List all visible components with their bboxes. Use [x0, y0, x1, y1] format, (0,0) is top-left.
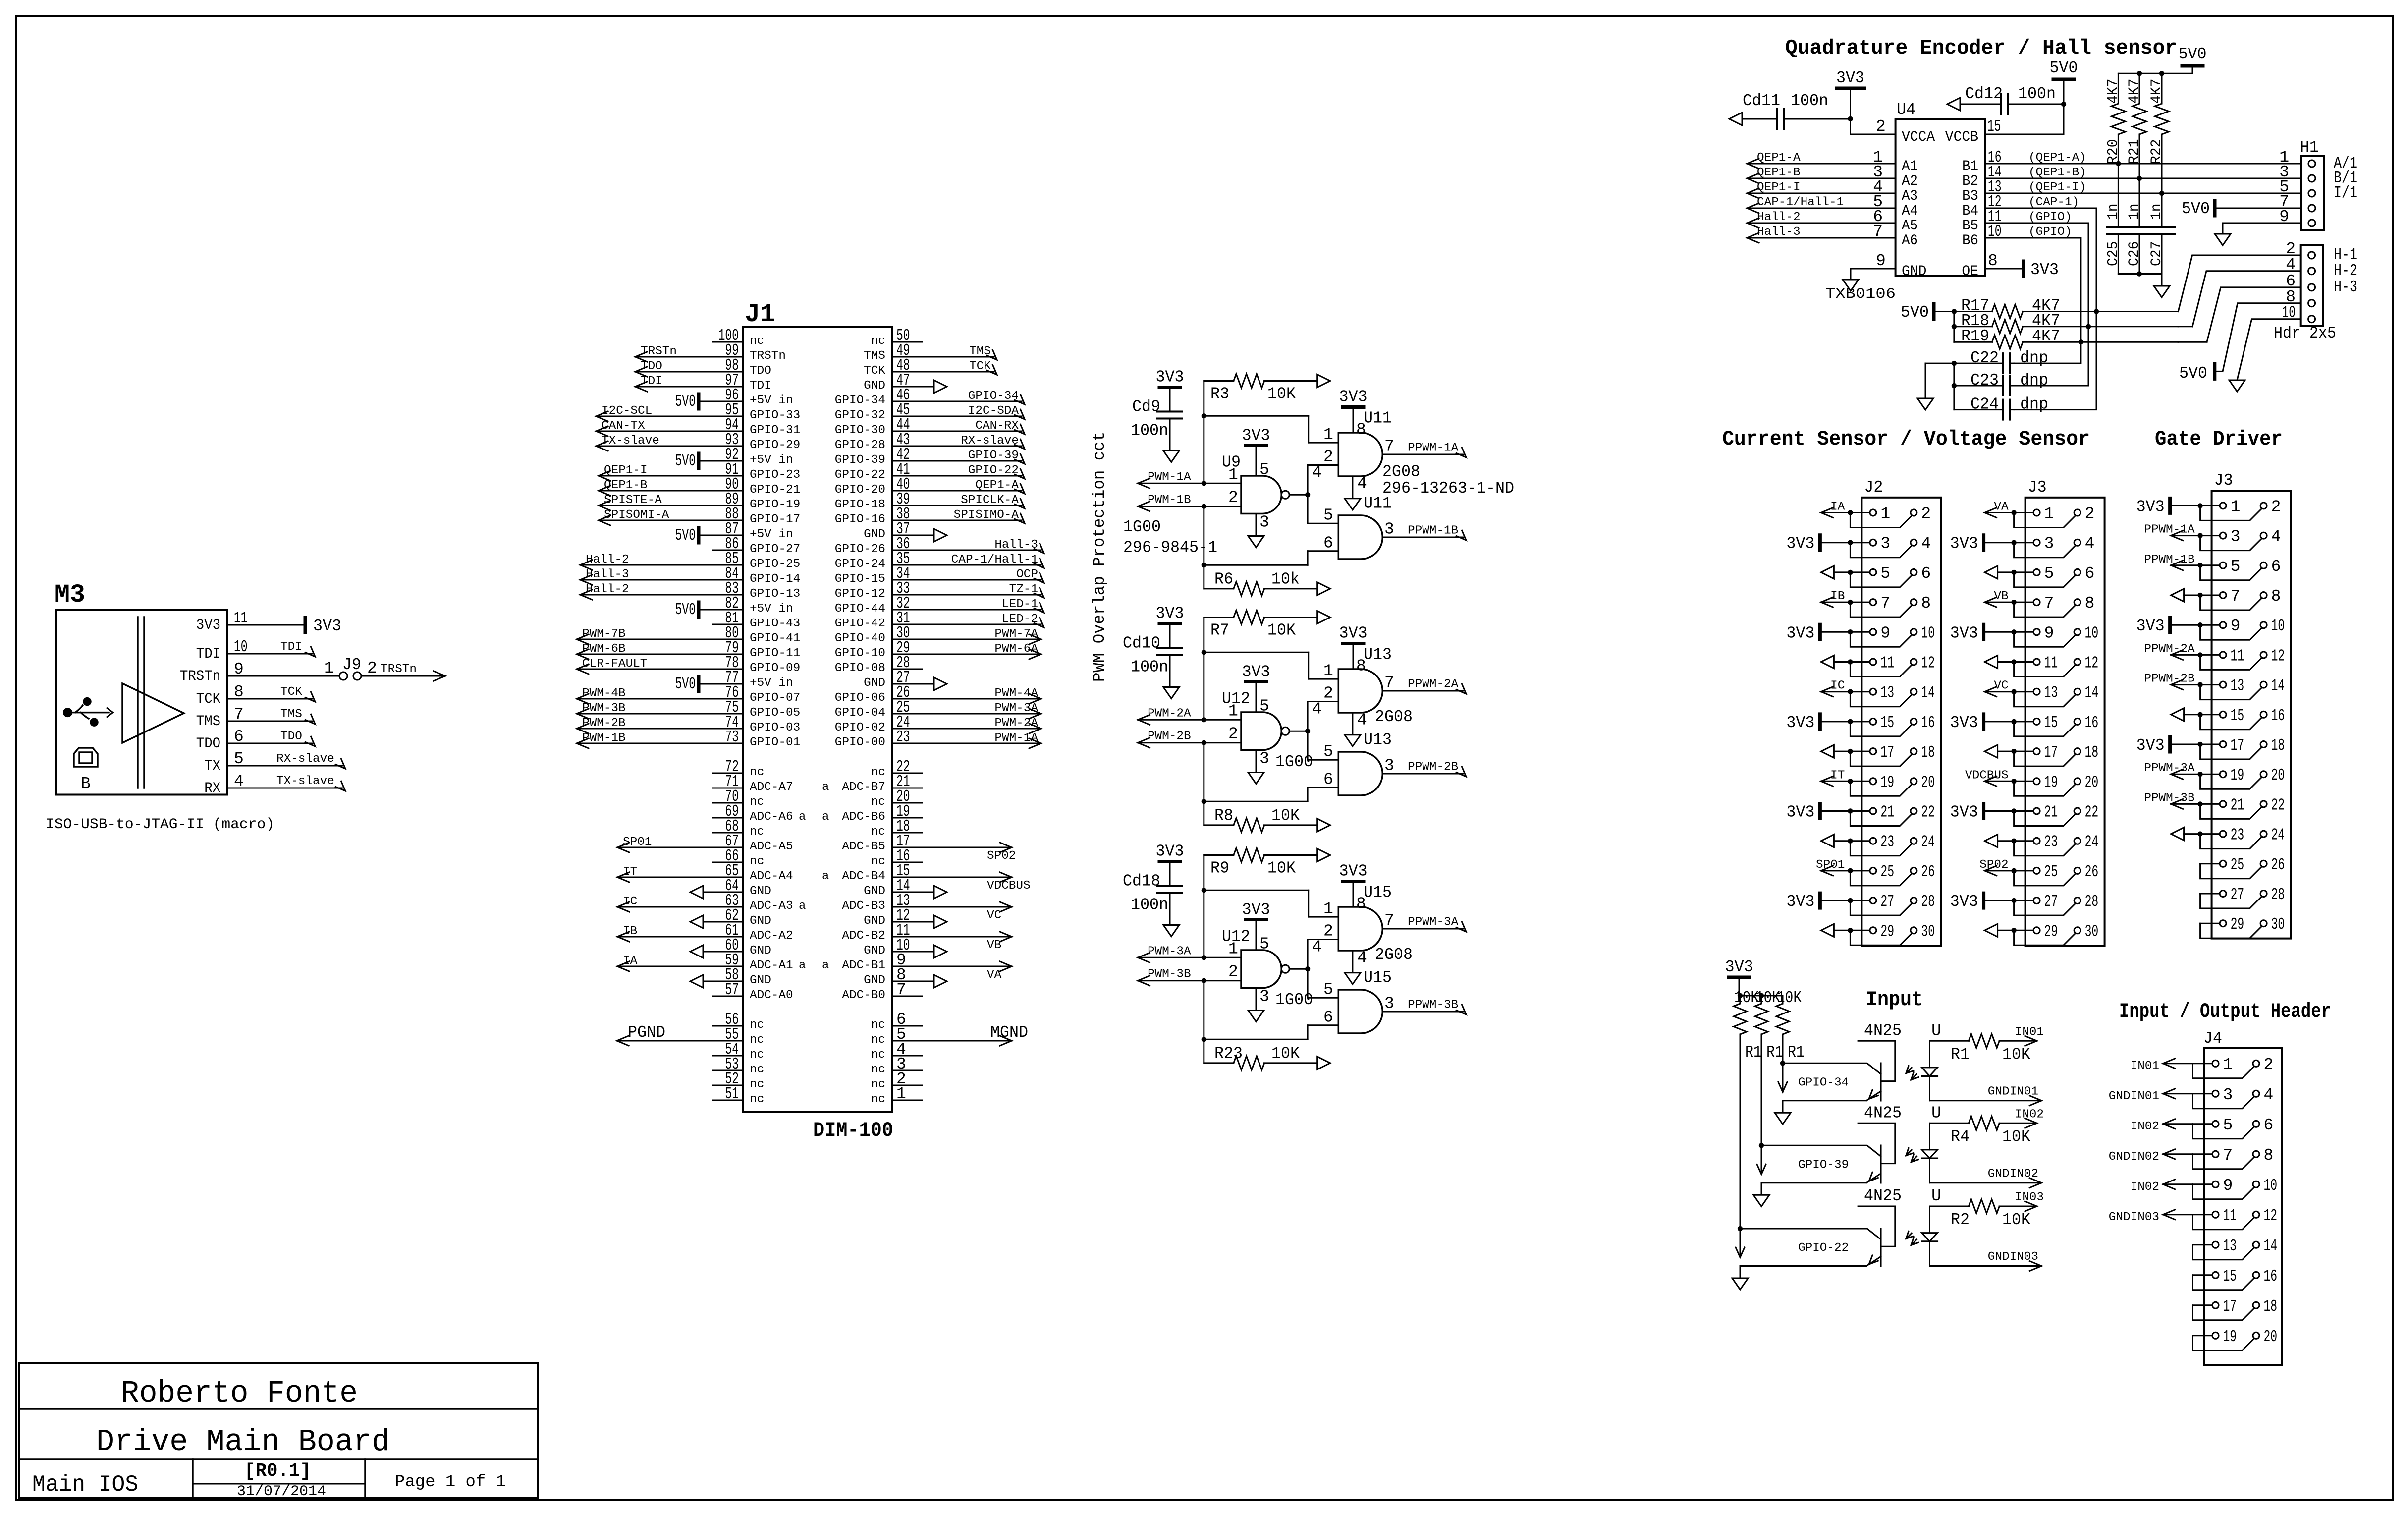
svg-text:ADC-A5: ADC-A5	[750, 840, 793, 853]
svg-text:(QEP1-A): (QEP1-A)	[2028, 151, 2086, 165]
svg-text:ADC-B6: ADC-B6	[842, 810, 885, 824]
U4 pin 4 A3 / net QEP1-I	[1747, 178, 1918, 205]
Hdr2x5 pin 6 H-3	[2286, 272, 2357, 296]
J1 pin 91 GPIO-23 / net QEP1-I	[599, 460, 800, 482]
svg-text:GPIO-26: GPIO-26	[835, 543, 885, 556]
svg-text:7: 7	[1384, 674, 1394, 692]
J1 pin 93 GPIO-29 / net TX-slave	[596, 431, 800, 452]
J1 pin 81 GPIO-43	[713, 609, 800, 630]
svg-text:Gate Driver: Gate Driver	[2155, 427, 2283, 451]
capacitor C24 dnp	[1954, 395, 2048, 420]
svg-text:PWM-1A: PWM-1A	[994, 731, 1038, 745]
svg-text:26: 26	[1921, 863, 1935, 881]
svg-text:TMS: TMS	[196, 713, 220, 730]
wire R18 extension	[2178, 326, 2192, 327]
J1 pin 89 GPIO-19 / net SPISTE-A	[599, 490, 800, 511]
svg-text:M3: M3	[55, 580, 85, 610]
M3 pin 7 TMS wire	[227, 708, 315, 724]
J1 pin 43 GPIO-28 / net RX-slave	[835, 431, 1025, 452]
J1 pin 85 GPIO-25 / net Hall-2	[580, 550, 800, 571]
svg-text:GPIO-03: GPIO-03	[750, 721, 800, 734]
J3 pins 11/12 net PPWM-2A	[1725, 642, 2332, 1365]
wire R9 bus to AND pin 1	[1202, 855, 1339, 960]
svg-text:R23: R23	[1214, 1045, 1243, 1063]
svg-text:nc: nc	[871, 1093, 885, 1106]
ground for H1 pin 9	[2215, 234, 2231, 245]
resistor R19 4K7	[1954, 327, 2178, 349]
svg-text:+5V in: +5V in	[750, 676, 793, 690]
J1 pin 25 GPIO-04 / net PWM-3A	[835, 698, 1041, 720]
svg-text:29: 29	[2231, 915, 2244, 934]
svg-text:GPIO-07: GPIO-07	[750, 691, 800, 705]
U4 pin 13 B3 / net (QEP1-I)	[1962, 178, 2086, 205]
wire bus to AND pin 6 and R6	[1202, 504, 1339, 589]
svg-text:19: 19	[2044, 773, 2058, 791]
J1 pin 39 GPIO-18 / net SPICLK-A	[835, 490, 1025, 511]
wire emitter to ground	[1740, 1266, 1866, 1279]
svg-text:3V3: 3V3	[313, 617, 341, 635]
J1 pin 100 nc	[713, 327, 764, 348]
svg-text:17: 17	[2044, 743, 2058, 762]
svg-text:8: 8	[2271, 587, 2281, 606]
J1 pin 62 GND	[690, 906, 771, 928]
J3 pins 29/30	[1725, 915, 2332, 1365]
svg-text:10K: 10K	[1267, 385, 1296, 403]
svg-text:QEP1-A: QEP1-A	[1757, 151, 1801, 165]
svg-text:VDCBUS: VDCBUS	[1965, 769, 2009, 782]
svg-text:PPWM-2B: PPWM-2B	[1408, 761, 1458, 774]
wire R17 row to Hdr pin 2	[2178, 255, 2301, 312]
svg-text:TXB0106: TXB0106	[1825, 286, 1896, 303]
svg-text:VC: VC	[1994, 679, 2008, 693]
M3 pin 8 TCK	[196, 683, 244, 708]
svg-text:26: 26	[2271, 856, 2285, 874]
svg-text:GND: GND	[750, 885, 771, 898]
J3 pins 21/22 net PPWM-3B	[1725, 791, 2332, 1365]
svg-text:5V0: 5V0	[2182, 200, 2210, 218]
svg-text:3V3: 3V3	[1950, 535, 1978, 553]
svg-text:4: 4	[1357, 949, 1367, 967]
J1 pin 83 GPIO-13 / net Hall-2	[580, 579, 800, 601]
svg-text:8: 8	[2264, 1146, 2274, 1165]
svg-text:Hall-3: Hall-3	[994, 538, 1038, 552]
svg-text:7: 7	[1384, 438, 1394, 456]
svg-text:GPIO-04: GPIO-04	[835, 706, 885, 720]
svg-text:19: 19	[1880, 773, 1894, 791]
J3 pins 23/24	[1725, 826, 2332, 1365]
svg-text:GPIO-40: GPIO-40	[835, 632, 885, 645]
resistor R17 4K7	[1954, 297, 2178, 319]
H1 pin 1 A/1	[2279, 148, 2357, 172]
svg-text:18: 18	[2271, 736, 2285, 755]
M3 pin 4 TX-slave wire	[227, 775, 345, 791]
J1 pin 30 GPIO-40 / net PWM-7A	[835, 624, 1041, 645]
svg-text:2: 2	[1323, 684, 1333, 703]
svg-text:SP02: SP02	[987, 849, 1016, 863]
svg-text:nc: nc	[871, 1063, 885, 1076]
svg-text:RX: RX	[204, 780, 220, 797]
svg-text:C27: C27	[2148, 241, 2165, 266]
svg-text:PPWM-3B: PPWM-3B	[1408, 999, 1458, 1012]
U4 pin 3 A2 / net QEP1-B	[1747, 163, 1918, 190]
Hdr2x5 pin 10	[2282, 304, 2315, 323]
J2 pins 15/16	[1725, 471, 2332, 1365]
J1 pin 70 nc	[713, 788, 764, 809]
svg-text:nc: nc	[750, 1018, 764, 1032]
svg-text:PPWM-2A: PPWM-2A	[1408, 678, 1459, 691]
J2 pins 5/6	[1725, 471, 2332, 1365]
J1 pin 54 nc	[713, 1040, 764, 1062]
svg-text:GND: GND	[864, 885, 885, 898]
svg-text:SPICLK-A: SPICLK-A	[961, 494, 1019, 507]
svg-text:1: 1	[1323, 426, 1333, 444]
svg-text:3V3: 3V3	[1786, 893, 1814, 911]
svg-text:GPIO-32: GPIO-32	[835, 409, 885, 422]
svg-text:ADC-B5: ADC-B5	[842, 840, 885, 853]
svg-text:9: 9	[2223, 1177, 2233, 1195]
svg-text:CAP-1/Hall-1: CAP-1/Hall-1	[951, 553, 1038, 566]
svg-text:TZ-1: TZ-1	[1009, 583, 1038, 596]
svg-text:10K: 10K	[2002, 1127, 2030, 1146]
U4 pin 8 OE to 3V3	[1962, 252, 2059, 280]
svg-text:J3: J3	[2028, 478, 2047, 497]
svg-text:6: 6	[1921, 564, 1931, 583]
svg-text:A3: A3	[1902, 188, 1918, 205]
svg-text:3: 3	[1384, 995, 1394, 1013]
svg-text:TDO: TDO	[750, 364, 771, 378]
svg-text:3V3: 3V3	[1156, 368, 1184, 387]
J1 pin 26 GPIO-06 / net PWM-4A	[835, 683, 1041, 705]
svg-text:TDI: TDI	[641, 375, 662, 388]
power 5V0 to U4 VCCB pin 15	[1945, 59, 2078, 146]
J1 pin 12 GND	[864, 906, 947, 928]
svg-text:GNDIN02: GNDIN02	[2109, 1150, 2159, 1164]
U4 pin 6 A5 / net Hall-2	[1747, 208, 1918, 234]
svg-text:6: 6	[2271, 558, 2281, 576]
svg-text:5: 5	[1880, 564, 1890, 583]
power 5V0 to R17-R19	[1901, 303, 1954, 322]
ground left of C22	[1917, 398, 1933, 410]
wire emitter to ground	[1761, 1183, 1866, 1195]
J1 pin 44 GPIO-30 / net CAN-RX	[835, 416, 1025, 437]
svg-text:U12: U12	[1222, 928, 1250, 946]
J1 pin 82 +5V in	[675, 594, 793, 619]
wire PWM-2A input	[1138, 702, 1242, 725]
svg-text:(GPIO): (GPIO)	[2028, 225, 2072, 239]
resistor R6 10k	[1204, 570, 1330, 596]
svg-text:5: 5	[2223, 1116, 2233, 1134]
svg-text:H-3: H-3	[2334, 278, 2357, 296]
svg-text:17: 17	[2231, 736, 2244, 755]
svg-text:5V0: 5V0	[675, 675, 696, 693]
svg-text:ADC-B1: ADC-B1	[842, 959, 885, 972]
capacitor C23 dnp	[1954, 371, 2048, 395]
J1 pin 74 GPIO-03 / net PWM-2B	[577, 713, 800, 734]
svg-text:3V3: 3V3	[1950, 624, 1978, 642]
J3 pins 19/20 net PPWM-3A	[1725, 762, 2332, 1365]
connector J3 body	[2212, 491, 2291, 939]
svg-text:U11: U11	[1364, 409, 1392, 428]
svg-text:nc: nc	[750, 795, 764, 809]
U12 pin 3 to ground	[1256, 750, 1269, 773]
Hdr2x5 pin 2 H-1	[2286, 240, 2357, 264]
svg-text:nc: nc	[871, 1018, 885, 1032]
svg-text:Quadrature Encoder / Hall sens: Quadrature Encoder / Hall sensor	[1785, 36, 2177, 60]
svg-text:5V0: 5V0	[2179, 45, 2207, 63]
svg-text:I2C-SDA: I2C-SDA	[968, 404, 1019, 418]
svg-text:16: 16	[2264, 1267, 2278, 1286]
svg-text:GNDIN01: GNDIN01	[2109, 1090, 2159, 1103]
svg-text:GND: GND	[864, 974, 885, 987]
svg-text:3V3: 3V3	[2136, 617, 2165, 635]
J1 pin 31 GPIO-42 / net LED-2	[835, 609, 1044, 630]
ground below Cd9	[1163, 451, 1179, 462]
svg-text:1: 1	[1323, 662, 1333, 680]
J1 pin 84 GPIO-14 / net Hall-3	[580, 564, 800, 586]
svg-text:QEP1-B: QEP1-B	[1757, 166, 1801, 179]
J1 pin 51 nc	[713, 1085, 764, 1106]
J1 pin 96 +5V in	[675, 386, 793, 411]
svg-text:R4: R4	[1951, 1127, 1970, 1146]
svg-text:2: 2	[2264, 1056, 2274, 1074]
U4 pin 1 A1 / net QEP1-A	[1747, 148, 1918, 175]
J1 pin 34 GPIO-15 / net OCP	[835, 564, 1044, 586]
wire R3 bus to AND pin 1	[1202, 381, 1339, 486]
svg-text:IC: IC	[1830, 679, 1845, 693]
svg-text:R6: R6	[1214, 570, 1233, 589]
svg-text:Cd10: Cd10	[1123, 634, 1160, 653]
light arrows	[1906, 1148, 1918, 1162]
svg-text:2G08: 2G08	[1375, 946, 1413, 964]
wire GPIO row B6 turns down	[1985, 238, 2081, 363]
wire MGND on J1 pin 5 row	[922, 1023, 1028, 1046]
svg-text:19: 19	[2231, 766, 2244, 785]
svg-text:Current Sensor / Voltage Senso: Current Sensor / Voltage Sensor	[1722, 427, 2090, 451]
svg-text:12: 12	[2264, 1207, 2278, 1225]
wire TRSTn from J9 pin 2	[361, 663, 445, 681]
M3 pin 7 TMS	[196, 705, 244, 730]
svg-text:Roberto Fonte: Roberto Fonte	[121, 1376, 358, 1411]
svg-text:GPIO-28: GPIO-28	[835, 439, 885, 452]
svg-text:nc: nc	[871, 795, 885, 809]
wire R20 column down to C25	[2118, 164, 2119, 227]
J1 pin 29 GPIO-10 / net PWM-6A	[835, 639, 1041, 660]
svg-text:12: 12	[2085, 654, 2099, 673]
svg-text:TDI: TDI	[280, 640, 302, 654]
M3 pin 11 wire to 3V3	[227, 617, 341, 635]
svg-text:9: 9	[2231, 617, 2241, 635]
svg-text:A6: A6	[1902, 232, 1918, 249]
svg-text:4: 4	[1312, 938, 1322, 956]
H1 pin 7	[2279, 193, 2315, 212]
svg-text:17: 17	[2223, 1297, 2237, 1316]
svg-text:U15: U15	[1364, 884, 1392, 902]
U15 pin 8 to 3V3	[1339, 862, 1368, 913]
svg-text:PWM-3A: PWM-3A	[1148, 945, 1191, 958]
AND gate U15 upper (PPWM-3A) 2G08	[1323, 884, 1392, 951]
svg-text:TRSTn: TRSTn	[641, 345, 677, 358]
J4 pins 1/2 net IN01	[2131, 1056, 2274, 1078]
svg-text:PWM-2B: PWM-2B	[582, 717, 626, 730]
svg-text:ISO-USB-to-JTAG-II (macro): ISO-USB-to-JTAG-II (macro)	[46, 816, 274, 833]
svg-text:TDI: TDI	[750, 379, 771, 393]
U15 pin 4 to ground	[1353, 949, 1367, 973]
J1 pin 16 nc	[871, 847, 922, 868]
svg-text:QEP1-I: QEP1-I	[1757, 181, 1801, 194]
svg-text:B3: B3	[1962, 188, 1978, 205]
svg-text:nc: nc	[750, 825, 764, 839]
J1 pin 37 GND	[864, 520, 947, 542]
H1 pin 5 I/1	[2279, 178, 2357, 202]
J1 pin 41 GPIO-22 / net GPIO-22	[835, 460, 1025, 482]
J3 pins 29/30	[1725, 471, 2332, 1365]
svg-text:Hall-2: Hall-2	[1757, 211, 1801, 224]
J1 pin 21 ADC-B7	[842, 773, 922, 794]
svg-text:GPIO-01: GPIO-01	[750, 736, 800, 749]
svg-text:29: 29	[1880, 922, 1894, 941]
svg-text:GPIO-12: GPIO-12	[835, 587, 885, 601]
svg-text:14: 14	[2271, 677, 2285, 695]
svg-text:B: B	[81, 775, 91, 793]
J1 pin 20 nc	[871, 788, 922, 809]
svg-text:3: 3	[1880, 535, 1890, 553]
svg-text:U13: U13	[1364, 646, 1392, 664]
svg-text:7: 7	[2223, 1146, 2233, 1165]
svg-text:GPIO-34: GPIO-34	[835, 394, 885, 407]
svg-text:IB: IB	[623, 925, 637, 938]
svg-text:nc: nc	[750, 1048, 764, 1062]
J1 pin 28 GPIO-08	[835, 654, 922, 675]
wire C22 row to ground	[1925, 361, 1957, 410]
svg-text:VC: VC	[987, 909, 1001, 922]
svg-text:Hdr 2x5: Hdr 2x5	[2274, 324, 2336, 342]
svg-text:nc: nc	[871, 335, 885, 348]
connector Hdr 2x5 body	[2301, 245, 2323, 326]
svg-text:PWM-7B: PWM-7B	[582, 627, 626, 641]
svg-text:dnp: dnp	[2020, 395, 2048, 414]
J1 pin 49 TMS / net TMS	[864, 341, 997, 363]
svg-text:5V0: 5V0	[2179, 364, 2207, 383]
svg-text:ADC-A7: ADC-A7	[750, 781, 793, 794]
svg-text:J4: J4	[2203, 1029, 2222, 1048]
svg-text:CAP-1/Hall-1: CAP-1/Hall-1	[1757, 196, 1844, 209]
J1 pin 45 GPIO-32 / net I2C-SDA	[835, 401, 1025, 422]
M3 pin 6 TDO wire	[227, 730, 315, 746]
svg-text:IN02: IN02	[2015, 1108, 2044, 1121]
svg-text:PPWM-1A: PPWM-1A	[1408, 442, 1459, 455]
svg-text:5: 5	[1259, 697, 1269, 716]
svg-text:LED-2: LED-2	[1002, 613, 1038, 626]
svg-text:PWM-2A: PWM-2A	[1148, 707, 1191, 721]
svg-text:9: 9	[1876, 252, 1886, 270]
title block vertical separator left	[192, 1459, 194, 1498]
U12 pin 5 to 3V3	[1242, 663, 1270, 716]
J3 pins 5/6	[1725, 471, 2332, 1365]
svg-text:16: 16	[2271, 707, 2285, 725]
svg-text:15: 15	[2223, 1267, 2237, 1286]
connector J2 body	[1861, 498, 1941, 946]
wire QEP1-A row B1 to H1 pin 1	[1985, 163, 2301, 165]
J2 pins 17/18	[1725, 471, 2332, 1365]
J2 pins 3/4	[1725, 471, 2332, 1365]
J1 pin 99 TRSTn / net TRSTn	[635, 341, 786, 363]
resistor R1 10K pullup #3	[1776, 989, 1805, 1062]
svg-text:TRSTn: TRSTn	[381, 663, 417, 676]
resistor R21 4K7 pullup	[2126, 73, 2146, 181]
svg-text:GPIO-39: GPIO-39	[968, 449, 1019, 462]
svg-text:3V3: 3V3	[1156, 843, 1184, 861]
J3 pins 15/16	[1725, 707, 2332, 1365]
svg-text:GND: GND	[864, 528, 885, 541]
svg-text:Main IOS: Main IOS	[32, 1472, 138, 1498]
svg-text:IT: IT	[1830, 769, 1845, 782]
svg-text:GPIO-25: GPIO-25	[750, 558, 800, 571]
IC U4 TXB0106 body	[1896, 119, 1985, 276]
J1 pin 32 GPIO-44 / net LED-1	[835, 594, 1044, 616]
J1 pin 71 ADC-A7	[713, 773, 793, 794]
J1 pin 18 nc	[871, 817, 922, 839]
wire emitter to ground	[1783, 1101, 1866, 1113]
svg-text:3: 3	[2044, 535, 2054, 553]
svg-text:R2: R2	[1951, 1211, 1970, 1229]
svg-text:GPIO-15: GPIO-15	[835, 572, 885, 586]
NAND gate U12 1G00	[1222, 928, 1289, 988]
M3 pin 8 TCK wire	[227, 685, 315, 702]
svg-text:20: 20	[2085, 773, 2099, 791]
svg-text:DIM-100: DIM-100	[813, 1119, 893, 1142]
svg-text:SPISIMO-A: SPISIMO-A	[954, 508, 1019, 522]
svg-text:a: a	[822, 870, 829, 883]
svg-text:4: 4	[2271, 528, 2281, 546]
light arrows	[1906, 1066, 1918, 1080]
wire GNDIN03	[1930, 1250, 2042, 1271]
NAND gate U12 1G00	[1222, 690, 1289, 750]
M3 buffer amp triangle	[122, 683, 184, 743]
svg-text:28: 28	[2271, 886, 2285, 904]
svg-text:a: a	[799, 900, 806, 913]
svg-text:ADC-A3: ADC-A3	[750, 900, 793, 913]
svg-text:100n: 100n	[1791, 92, 1828, 110]
svg-text:nc: nc	[871, 825, 885, 839]
svg-text:GPIO-09: GPIO-09	[750, 662, 800, 675]
resistor R2 10K to IN03	[1930, 1191, 2044, 1229]
U4 pin 14 B2 / net (QEP1-B)	[1962, 163, 2086, 190]
svg-text:27: 27	[1880, 893, 1894, 911]
M3 USB-B connector icon	[74, 748, 98, 767]
svg-text:25: 25	[2044, 863, 2058, 881]
svg-text:[R0.1]: [R0.1]	[244, 1461, 311, 1482]
svg-text:10K: 10K	[1267, 621, 1296, 640]
J2 pins 9/10	[1725, 471, 2332, 1365]
J4 pins 7/8 net GNDIN02	[2109, 1146, 2274, 1169]
resistor R1 10K to IN01	[1930, 1025, 2044, 1064]
J3 pins 25/26 net SP02	[1725, 471, 2332, 1365]
svg-text:3V3: 3V3	[1836, 69, 1864, 87]
svg-text:5: 5	[1323, 981, 1333, 999]
svg-text:U15: U15	[1364, 969, 1392, 987]
svg-text:VCCB: VCCB	[1945, 129, 1978, 146]
ground for IN02 emitter	[1753, 1195, 1769, 1206]
svg-text:dnp: dnp	[2020, 349, 2048, 367]
J1 pin 5 nc	[871, 1025, 922, 1047]
J3 pins 5/6 net PPWM-1B	[1725, 553, 2332, 1365]
svg-text:GPIO-11: GPIO-11	[750, 647, 800, 660]
J1 pin 67 ADC-A5 / net SP01	[617, 832, 793, 853]
svg-text:3V3: 3V3	[1339, 388, 1368, 406]
resistor R4 10K to IN02	[1930, 1108, 2044, 1146]
svg-text:C25: C25	[2105, 241, 2122, 266]
J1 pin 13 ADC-B3 / net VC	[842, 892, 1012, 922]
